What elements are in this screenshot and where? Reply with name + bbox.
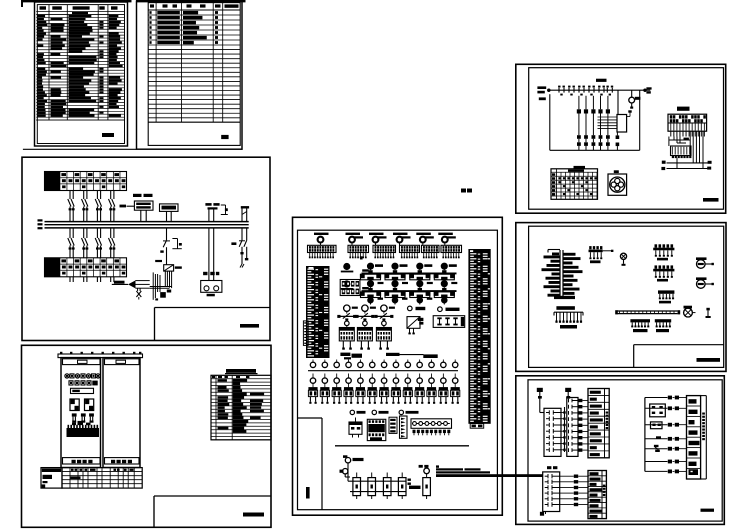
note text line 1 [436,468,463,470]
control switch SA1 stack [337,305,356,350]
label wiring section notes [340,353,437,360]
table cabinet schedule grid [62,468,142,489]
title block apparatus details [634,345,724,368]
terminal circle TA1 [343,455,364,463]
fuse assemblies row [308,383,459,404]
wire sheet corner stub left [21,1,23,7]
wire output pair 1 [661,158,711,170]
wire connector outputs right [690,131,703,168]
control fuse FU11 [577,96,581,135]
label busbar phases [38,219,43,229]
feeder circuit 3 with breaker QF3 [95,191,102,283]
test block ladder wires [345,463,406,492]
wire sheet top edge segment 2 [136,0,246,2]
fuse switch contact S2 [568,86,575,96]
label figure reference above center panel [461,189,472,193]
cabinet 1 outline [61,358,101,468]
terminal circle TA2 [340,469,348,474]
contactor KM3 on rail 1 [409,263,432,280]
table signature mark parts list 2 [221,135,228,139]
power tap symbol 1 [537,388,543,413]
panel border DC control outer [516,376,725,525]
terminal strip X2 right [468,249,490,424]
terminal comb block 2 below rail [655,319,671,332]
panel border secondary diagram outer [293,217,503,515]
cabinet 1 apparatus silhouette [67,421,100,437]
disconnect switch QS1 [160,239,182,265]
table header labels parts list 1 [40,6,118,14]
fuse terminal block FU1 [308,245,337,258]
control fuse FU12 [584,96,588,135]
table cabinet schedule marks [70,469,133,479]
cable outgoing arrow [112,280,150,288]
control switch SA2 stack [355,305,374,350]
table grid parts list 2 [148,3,240,123]
label meter group [438,307,460,312]
auxiliary contact row A K3 [592,135,596,142]
current transformer test switch [419,465,431,499]
panel border control power outer [516,64,726,213]
terminal circles row 2 [310,374,458,384]
table interlock logic [551,169,598,200]
auxiliary contact row B K4 [599,142,603,150]
connector comb A top-right [653,244,674,256]
energy meter crossed box [155,260,182,271]
cabinet 1 meter M1 [70,399,79,411]
indicator lamp HL5 [416,233,434,246]
terminal mini strip [389,417,397,433]
indicator lamp HL3 [369,233,387,246]
signal row wire 1 [645,396,687,400]
control fuse FU13 [591,96,595,135]
label PT [133,194,153,197]
cabinet 1 control switches [72,413,94,422]
label group 2x below [547,466,557,469]
fuse terminal block FU6 [441,245,462,258]
feeder circuit 4 with breaker QF4 [109,191,116,283]
table header labels parts list 2 [150,4,239,7]
transducer crossed box [407,317,423,335]
cabinet 2 header bar [105,359,140,365]
table equipment list data blobs [212,376,264,433]
table grid parts list 1 [36,5,124,120]
wire control return bus [550,149,640,151]
connector block X upper [668,114,707,131]
fuse terminal block FU2 [348,245,369,258]
relay box K1 [349,418,362,438]
test terminal capsule 4 [398,473,406,500]
power tap symbol 2 [565,388,571,399]
table frame parts list 2 [137,1,243,149]
cabinet 2 footer bar [105,458,140,464]
terminal circles row 1 [310,360,458,368]
table frame parts list 1 [35,2,128,146]
auxiliary terminal lamp 1 [350,410,365,414]
title block single-line diagram [155,308,271,341]
fuse terminal block FU5 [422,245,440,258]
wire stub below block 2 [360,256,363,259]
relay contact box upper [650,404,666,417]
pilot relay coil KC [629,90,641,109]
wire meter drop cluster [150,271,172,300]
wire sheet above bottom edge [23,148,137,150]
control fuse FU15 [606,96,610,135]
diode chain terminals [413,430,451,436]
label source left [537,86,550,93]
busbar 3-phase [45,222,249,228]
note marker dot [436,465,439,467]
title text DC control panel [701,509,715,512]
relay bank KA block [340,280,360,296]
connector block X teeth [671,131,705,136]
title text apparatus details [697,358,721,362]
cabinet 1 header bar [63,359,101,365]
fuse terminal block FU4 [400,245,420,258]
auxiliary terminal lamp 2 [372,410,388,414]
control rail 1 [362,272,457,274]
wire section divider [335,445,469,447]
table equipment list grid [211,375,271,440]
cabinet 1 meter M2 [85,399,94,411]
fuse switch contact S1 [558,86,565,96]
relay contact box lower [651,422,663,429]
terminal rail horizontal [615,310,680,314]
auxiliary contact row B K1 [577,142,581,150]
note text line 2 [436,471,490,473]
label circuit title [596,79,607,82]
label comb B [657,279,668,282]
test terminal capsule 3 [383,473,391,500]
surge arrester branch [231,206,249,267]
auxiliary terminal lamp 3 [399,410,418,414]
label rail 2 left end [362,287,369,289]
contactor KM6 on rail 2 [384,281,405,305]
label comb A [657,258,668,261]
diode chain box [411,419,452,429]
panel border secondary diagram inner [298,230,498,510]
cabinet 1 pushbutton row [69,381,98,386]
meter symbol PV2 [696,277,714,288]
terminal strip X1 side column [303,321,308,346]
contact box signal group 3 [543,472,588,512]
wire connector routing loop [669,137,691,147]
connector comb B right [653,265,674,277]
cabinet roof bar [58,352,143,358]
panel border single-line diagram [22,157,270,340]
auxiliary contact row A K1 [577,135,581,142]
terminal strip block A [588,389,609,458]
auxiliary contact row B K3 [592,142,596,150]
wire junction column 1 [563,407,565,452]
meter box PJ [201,281,222,297]
connector block X lower strip [671,146,692,158]
label comb top-middle [590,260,601,263]
table feeder schedule top [45,172,127,191]
fuse switch contact S3 [578,86,585,96]
fuse branch below arrow [136,288,141,299]
terminal relay box KA0 [598,110,632,132]
transformer assembly TA vertical [542,250,583,300]
terminal strip X1 left [306,266,330,358]
switch stem symbol [706,308,711,318]
title column secondary diagram [298,418,323,510]
capsule group label [408,479,421,490]
cabinet 1 indicator lamps row [65,374,100,378]
auxiliary lamp column left of rails [341,264,354,290]
signal row wire 3 [645,423,687,427]
label interlock table title [574,166,586,169]
control fuse FU14 [598,96,602,135]
wire PT leads [120,205,147,222]
contact box signal group 2 [567,398,588,457]
key switch symbol [620,253,626,266]
label connector X designation [677,107,690,111]
terminal bar bottom-middle-left [658,290,674,303]
title text single-line diagram [240,324,259,328]
label transducer [408,306,426,311]
cabinet 1 meter window [71,388,94,393]
table data rows parts list 2 [149,11,218,44]
label between-rail circles [378,282,458,284]
label rail 1 left end [362,269,369,271]
fuse terminal block FU3 [373,245,396,258]
cabinet 2 outline [103,358,140,468]
current transformer CT1 box [160,204,179,212]
wire left rail drop [549,94,551,150]
control switch SA3 stack [374,305,393,350]
panel border DC control inner [528,380,722,521]
contactor KM8 on rail 2 [434,281,455,305]
fuse switch contact S5 [598,86,605,96]
title block cabinet arrangement [154,496,271,527]
fuse switch contact S6 [606,86,613,96]
contactor KM5 on rail 2 [360,281,381,305]
wire control phase bus [548,89,651,91]
contactor KM4 on rail 1 [434,263,457,280]
panel border cabinet arrangement [22,345,272,527]
wire terminal row divider [308,370,458,372]
wire output pair h [662,161,712,164]
table data blobs parts list 1 [38,15,123,117]
cabinet 1 footer bar [63,458,101,464]
label transformer assembly [556,306,575,310]
control rail 2 [362,290,457,292]
z-contact mark row 5 [654,445,660,452]
feeder circuit 2 with breaker QF2 [82,191,89,283]
contact mark row 4 [656,436,661,439]
test terminal capsule 2 [368,473,376,500]
terminal strip block C [687,396,707,479]
voltage transformer PT box [134,201,153,210]
table equipment list heading [225,369,258,374]
wire DC ladder left rail [644,398,646,472]
title text cabinet arrangement [243,513,264,517]
ground stub below box [540,512,546,516]
title text control power panel [703,198,719,202]
cooling fan symbol [608,170,627,195]
panel border apparatus details inner [529,226,724,367]
indicator lamp HL4 [393,233,411,246]
test terminal capsule 1 [353,473,361,500]
terminal comb block 1 below rail [630,319,650,332]
contact box signal group 1 [540,408,565,456]
panel border control power inner [529,68,724,210]
contactor KM7 on rail 2 [409,281,430,305]
table feeder schedule bottom [45,258,127,277]
relay cluster K2 [367,419,386,440]
terminal strip X2 footer [470,424,484,429]
signal row wire 4 [645,437,687,441]
signal row wire 2 [645,406,687,410]
terminal strip block B [588,471,606,519]
auxiliary contact row A K5 [606,135,610,142]
meter symbol PV1 [696,257,714,268]
panel border apparatus details outer [516,223,726,372]
connector comb wide bottom-left [554,312,583,328]
connector strip vertical [400,416,408,438]
label line end right [644,87,652,93]
wire CT1 to bus [167,211,172,240]
label below rail circles [378,298,433,300]
label source neutral [539,97,546,100]
wire CT2 to meter [203,210,219,281]
wire sheet top edge segment 1 [21,0,132,2]
table signature mark parts list 1 [102,133,114,137]
signal row wire 5 [645,447,687,451]
auxiliary contact row B K2 [584,142,588,150]
indicator lamp HL6 [438,233,456,246]
feeder circuit 1 with breaker QF1 [68,191,75,283]
indicator lamp HL2 [346,233,364,246]
auxiliary contact column KC [616,132,620,150]
current transformer CT2 group [205,203,227,214]
fuse switch contact S4 [588,86,595,96]
auxiliary contact row B K5 [606,142,610,150]
socket symbol crossed circle [684,306,696,317]
signal row wire 7 [645,470,687,474]
meter group box [433,316,465,328]
auxiliary contact row A K2 [584,135,588,142]
contactor KM1 on rail 1 [360,263,383,280]
contactor KM2 on rail 1 [384,263,407,280]
leader arrow to DC panel [436,474,543,477]
wire branch to relay [617,90,619,114]
label stack circles [352,307,395,309]
wire right rail drop [639,90,641,150]
auxiliary contact row A K4 [599,135,603,142]
connector comb small top-middle [589,246,614,259]
table cabinet schedule header box [41,468,62,489]
signal row wire 6 [645,460,687,464]
indicator lamp HL1 [314,233,329,246]
